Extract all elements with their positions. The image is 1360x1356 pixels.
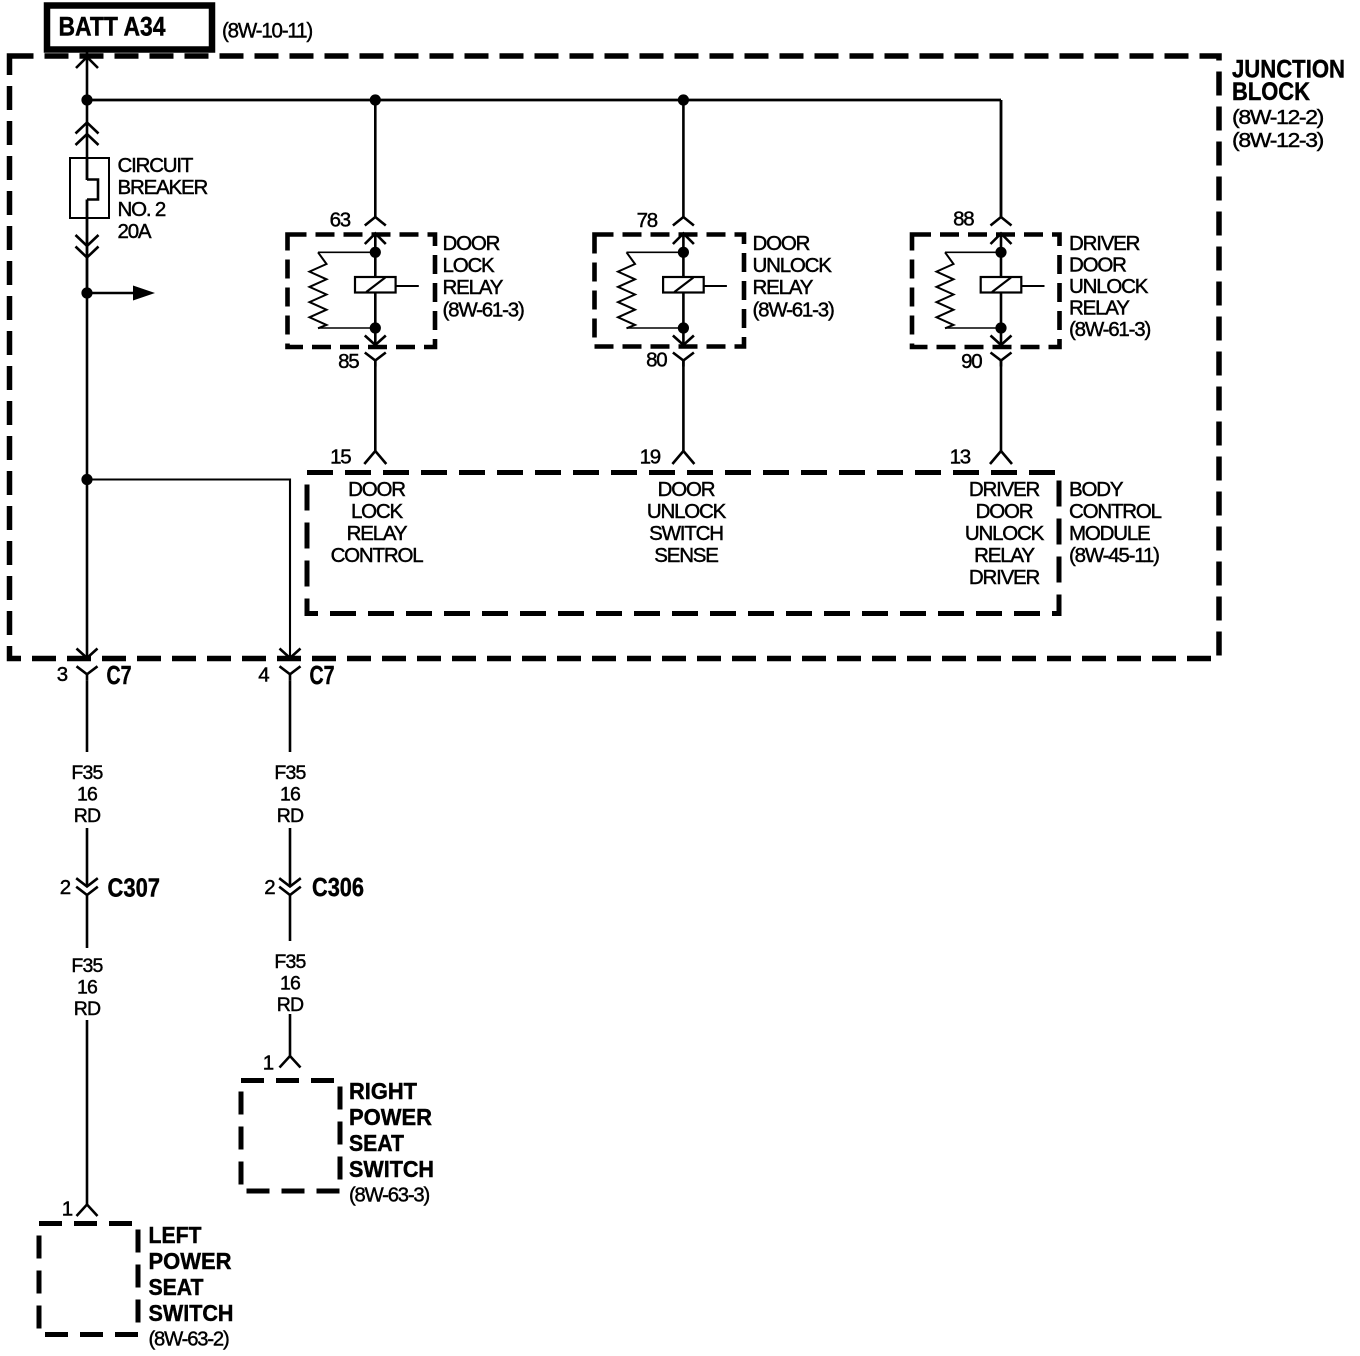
svg-text:UNLOCK: UNLOCK [1069,275,1149,298]
svg-text:RELAY: RELAY [753,276,814,299]
svg-text:CIRCUIT: CIRCUIT [118,154,194,177]
svg-text:(8W-12-2): (8W-12-2) [1232,106,1323,129]
svg-text:3: 3 [57,663,68,686]
svg-text:63: 63 [330,209,351,232]
svg-text:DRIVER: DRIVER [1069,232,1140,255]
svg-text:C306: C306 [312,872,364,902]
svg-text:C7: C7 [107,660,132,690]
svg-text:RELAY: RELAY [1069,297,1130,320]
svg-text:UNLOCK: UNLOCK [965,522,1045,545]
svg-text:C7: C7 [310,660,335,690]
svg-text:DOOR: DOOR [753,232,810,255]
svg-text:RD: RD [74,805,101,827]
svg-text:F35: F35 [274,951,306,973]
svg-text:SEAT: SEAT [349,1130,404,1156]
svg-text:RD: RD [277,994,304,1016]
svg-text:BATT A34: BATT A34 [59,12,166,42]
svg-text:BODY: BODY [1069,478,1124,501]
svg-text:SWITCH: SWITCH [149,1300,234,1326]
svg-text:16: 16 [280,784,300,806]
svg-text:LOCK: LOCK [351,500,404,523]
svg-text:SEAT: SEAT [149,1274,204,1300]
svg-text:(8W-61-3): (8W-61-3) [1069,318,1150,341]
svg-text:SWITCH: SWITCH [349,1156,434,1182]
svg-text:RIGHT: RIGHT [349,1078,417,1104]
svg-text:90: 90 [961,350,982,373]
svg-text:13: 13 [950,446,971,469]
svg-text:RD: RD [277,805,304,827]
svg-text:DOOR: DOOR [976,500,1033,523]
svg-text:88: 88 [953,208,974,231]
svg-text:RELAY: RELAY [347,522,408,545]
svg-text:16: 16 [77,977,97,999]
svg-text:16: 16 [77,784,97,806]
svg-text:DOOR: DOOR [443,232,500,255]
svg-text:78: 78 [637,209,658,232]
svg-text:DRIVER: DRIVER [969,478,1040,501]
svg-text:CONTROL: CONTROL [1069,500,1162,523]
svg-text:MODULE: MODULE [1069,522,1150,545]
svg-text:BLOCK: BLOCK [1232,78,1310,106]
svg-text:POWER: POWER [149,1248,232,1274]
svg-text:CONTROL: CONTROL [331,544,424,567]
svg-text:(8W-10-11): (8W-10-11) [222,20,312,43]
svg-text:F35: F35 [71,762,103,784]
svg-text:DOOR: DOOR [1069,254,1126,277]
svg-text:16: 16 [280,973,300,995]
svg-text:15: 15 [330,446,351,469]
svg-text:NO. 2: NO. 2 [118,198,166,221]
svg-text:LEFT: LEFT [149,1222,202,1248]
svg-text:(8W-12-3): (8W-12-3) [1232,129,1323,152]
svg-text:(8W-63-3): (8W-63-3) [349,1184,429,1207]
svg-text:F35: F35 [71,955,103,977]
svg-text:80: 80 [646,349,667,372]
svg-text:UNLOCK: UNLOCK [753,254,833,277]
svg-text:(8W-61-3): (8W-61-3) [753,299,834,322]
svg-text:(8W-45-11): (8W-45-11) [1069,544,1159,567]
svg-text:2: 2 [60,876,71,899]
svg-text:1: 1 [62,1198,73,1221]
svg-text:RD: RD [74,998,101,1020]
svg-text:19: 19 [640,446,661,469]
svg-text:SENSE: SENSE [654,544,718,567]
svg-text:UNLOCK: UNLOCK [647,500,727,523]
svg-text:RELAY: RELAY [443,276,504,299]
svg-text:BREAKER: BREAKER [118,176,208,199]
svg-text:4: 4 [258,664,269,687]
svg-text:POWER: POWER [349,1104,432,1130]
svg-text:1: 1 [263,1052,274,1075]
svg-text:85: 85 [338,350,359,373]
svg-text:(8W-61-3): (8W-61-3) [443,299,524,322]
svg-text:DOOR: DOOR [658,478,715,501]
svg-text:F35: F35 [274,762,306,784]
svg-text:DOOR: DOOR [348,478,405,501]
svg-text:2: 2 [264,876,275,899]
svg-text:(8W-63-2): (8W-63-2) [149,1328,229,1351]
svg-text:DRIVER: DRIVER [969,566,1040,589]
svg-text:SWITCH: SWITCH [649,522,723,545]
svg-text:LOCK: LOCK [443,254,496,277]
svg-text:RELAY: RELAY [974,544,1035,567]
svg-text:20A: 20A [118,220,152,243]
svg-text:C307: C307 [108,873,161,903]
